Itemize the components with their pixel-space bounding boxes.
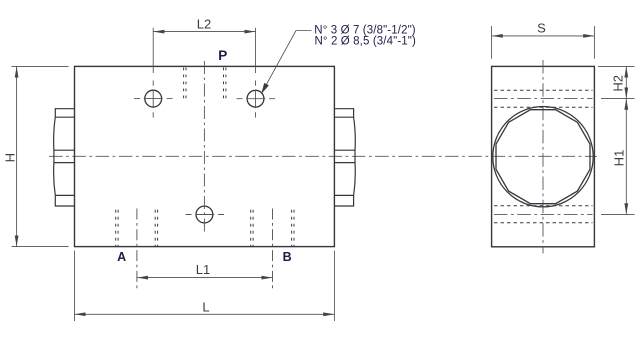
dimension H2 bbox=[598, 66, 635, 98]
main horizontal centerline bbox=[49, 155, 597, 157]
dimension L2 bbox=[153, 28, 255, 73]
svg-text:H1: H1 bbox=[612, 150, 627, 167]
crosshair hole top-left bbox=[134, 81, 173, 118]
hole top-left bbox=[145, 90, 162, 107]
left hex plug bbox=[54, 109, 75, 206]
hidden thread lines bottom port A bbox=[116, 210, 158, 247]
crosshair hole bottom-center bbox=[186, 214, 225, 216]
side view hex polygon bbox=[496, 110, 590, 204]
svg-text:L: L bbox=[202, 299, 209, 314]
side view body outline bbox=[492, 66, 595, 246]
hole top-right (P port) bbox=[247, 90, 264, 107]
hole bottom-center bbox=[196, 206, 213, 223]
side view hidden lines lower port bbox=[494, 206, 593, 223]
side view big circle bbox=[493, 107, 593, 207]
hidden thread lines top pair left bbox=[184, 68, 186, 102]
svg-text:L2: L2 bbox=[197, 17, 211, 32]
svg-text:B: B bbox=[283, 250, 292, 264]
svg-text:H2: H2 bbox=[610, 75, 625, 92]
svg-text:H: H bbox=[3, 153, 18, 162]
side view hidden lines upper port bbox=[494, 90, 593, 107]
side view port centerline upper bbox=[494, 98, 593, 100]
side view port centerline lower bbox=[494, 213, 593, 215]
svg-text:S: S bbox=[537, 21, 546, 36]
svg-text:A: A bbox=[117, 250, 126, 264]
svg-text:L1: L1 bbox=[196, 262, 210, 277]
svg-text:N° 2 Ø 8,5 (3/4"-1"): N° 2 Ø 8,5 (3/4"-1") bbox=[315, 35, 416, 47]
dimension S bbox=[492, 26, 595, 59]
vertical centerline through P and bottom hole bbox=[203, 61, 205, 233]
leader arrowhead bbox=[262, 83, 269, 93]
dimension H bbox=[12, 66, 69, 246]
dimension L1 bbox=[137, 209, 273, 289]
crosshair hole top-right bbox=[237, 81, 276, 118]
side view vertical centerline bbox=[542, 60, 544, 254]
front view body outline bbox=[75, 66, 335, 246]
hidden thread lines top pair right bbox=[224, 68, 226, 102]
dimension L bbox=[75, 251, 335, 322]
svg-text:P: P bbox=[218, 48, 227, 63]
leader line to note bbox=[262, 31, 312, 94]
right hex plug bbox=[334, 109, 355, 206]
dimension H1 bbox=[601, 99, 635, 215]
hidden thread lines bottom port B bbox=[251, 210, 294, 247]
